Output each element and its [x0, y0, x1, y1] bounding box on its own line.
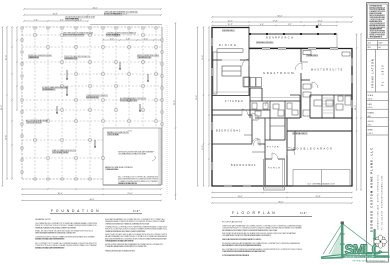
bath cluster center [250, 109, 270, 111]
svg-text:SLAB ON GRADE WITH 6X6 W1.4 WW: SLAB ON GRADE WITH 6X6 W1.4 WWM OVER 6 M… [222, 238, 262, 241]
foundation plan [1, 7, 176, 252]
svg-text:DOGWOOD CUSTOM HOME PLANS, LLC: DOGWOOD CUSTOM HOME PLANS, LLC [370, 147, 374, 232]
svg-text:FL - 1910: FL - 1910 [381, 64, 385, 86]
wic shelving [323, 97, 333, 99]
svg-text:28'-4": 28'-4" [355, 105, 357, 110]
edge piers right [161, 39, 163, 41]
kitchen walls and counters [248, 60, 250, 95]
main rear wall [249, 48, 353, 50]
svg-text:TO VERIFY ALL DIMENSIONS AND: TO VERIFY ALL DIMENSIONS AND [105, 168, 119, 171]
svg-text:GENERAL NOTE: GENERAL NOTE [35, 218, 51, 221]
svg-text:6'-0": 6'-0" [144, 38, 148, 40]
svg-text:FRANK LATSON: FRANK LATSON [371, 59, 375, 88]
master suite walls [300, 49, 302, 63]
foundation top dimension lines [24, 8, 161, 10]
svg-text:5'-8": 5'-8" [126, 38, 130, 40]
svg-text:THE REAL ESTATE PROFESSIONALS: THE REAL ESTATE PROFESSIONALS [352, 260, 386, 263]
garage slab outline [103, 128, 161, 185]
title block small table [367, 40, 389, 42]
svg-text:13'-6": 13'-6" [202, 55, 204, 60]
foundation outer dashed boundary [22, 26, 162, 28]
svg-text:DRAWN: DRAWN [368, 111, 375, 114]
svg-text:F L O O R P L A N: F L O O R P L A N [232, 211, 276, 215]
svg-text:18'-4": 18'-4" [57, 193, 62, 195]
client name vertical [375, 50, 377, 93]
svg-text:16'x7' OVERHEAD GARAGE DOOR: 16'x7' OVERHEAD GARAGE DOOR [307, 183, 335, 186]
logo base band [343, 255, 390, 258]
svg-text:SHEET: SHEET [368, 130, 374, 132]
svg-text:12'-2": 12'-2" [227, 20, 232, 22]
svg-text:ON FIRM UNDISTURBED SOIL TREAT: ON FIRM UNDISTURBED SOIL TREATED SILL PL… [105, 222, 150, 225]
svg-text:SOIL TREATED SILL PLATES ANCHO: SOIL TREATED SILL PLATES ANCHOR BOLTS AT… [105, 239, 135, 242]
foundation misc arrows [66, 70, 68, 80]
hall lower wall [212, 109, 250, 111]
svg-text:R E A R P O R C H: R E A R P O R C H [266, 37, 293, 40]
bedroom2 walls [212, 114, 252, 116]
edge piers left [21, 27, 23, 29]
svg-text:12'-2": 12'-2" [227, 24, 232, 26]
rear porch beam [249, 33, 337, 35]
exterior wall bottom [211, 185, 352, 187]
svg-text:ON COMPACTED FILL CONTRACTOR T: ON COMPACTED FILL CONTRACTOR TO VERIFY A… [222, 234, 272, 237]
svg-text:WRITTEN PERMISSION IS PROHIBIT: WRITTEN PERMISSION IS PROHIBITED [369, 17, 386, 19]
garage doors [293, 170, 350, 187]
floor plan left dimension lines [197, 27, 199, 186]
windows [211, 38, 213, 46]
floor plan top dimension lines [212, 16, 352, 18]
svg-text:M A S T E R S U I T E: M A S T E R S U I T E [311, 69, 343, 72]
svg-text:19'-8": 19'-8" [52, 13, 57, 15]
edge piers top [34, 27, 36, 29]
title block info rows [367, 100, 389, 102]
hall internal dim line [250, 97, 300, 99]
title block [367, 3, 389, 263]
svg-text:WWM OVER 6 MIL VAPOR BARRIER O: WWM OVER 6 MIL VAPOR BARRIER ON COMPACTE… [35, 232, 76, 235]
svg-text:CONDITIONS PRIOR TO CONSTRUCTI: CONDITIONS PRIOR TO CONSTRUCTION [28, 57, 40, 59]
svg-text:SML: SML [368, 116, 372, 118]
svg-text:30'-2": 30'-2" [174, 100, 176, 105]
svg-text:JOB NO: JOB NO [368, 121, 375, 123]
interior piers [34, 34, 36, 36]
svg-text:1/4": 1/4" [300, 211, 307, 215]
svg-text:SILL PLATES ANCHOR BOLTS AT 6-: SILL PLATES ANCHOR BOLTS AT 6-0 OC MAX P… [118, 182, 138, 185]
master bath fixtures [303, 84, 311, 89]
svg-text:15'-4": 15'-4" [317, 20, 322, 22]
SMLC watermark logo [321, 222, 390, 263]
svg-text:SILL PLATES ANCHOR BOLTS AT 6-: SILL PLATES ANCHOR BOLTS AT 6-0 OC MAX P… [35, 238, 65, 241]
utility room [250, 87, 262, 89]
svg-text:D O U B L E G A R A G E: D O U B L E G A R A G E [293, 148, 332, 151]
svg-text:44'-0": 44'-0" [89, 199, 94, 201]
svg-text:1910: 1910 [368, 124, 372, 126]
svg-text:44'-0": 44'-0" [1, 105, 3, 110]
interior door gaps [242, 114, 248, 115]
title block dense notes box [368, 4, 387, 39]
svg-text:G R E A T R O O M: G R E A T R O O M [263, 71, 294, 75]
floor plan right dimension lines [356, 34, 358, 190]
svg-text:30'-2": 30'-2" [196, 95, 198, 100]
edge piers bottom [34, 178, 36, 180]
svg-text:1 OF 2: 1 OF 2 [368, 133, 373, 135]
interior door arcs [242, 59, 249, 66]
logo bridge tower right [374, 229, 376, 258]
svg-text:K I T C H E N: K I T C H E N [225, 101, 243, 103]
foundation bottom dimension lines [22, 188, 161, 190]
svg-text:1/4"=1': 1/4"=1' [368, 99, 374, 101]
svg-text:PSI AT 28 DAYS MIN SLAB ON GRA: PSI AT 28 DAYS MIN SLAB ON GRADE WITH 6X… [105, 250, 135, 253]
floor plan [196, 15, 362, 257]
svg-text:TREATED SILL PLATES ANCHOR BOL: TREATED SILL PLATES ANCHOR BOLTS AT 6-0 … [35, 226, 77, 229]
svg-text:AND CONDITIONS PRIOR TO CONSTR: AND CONDITIONS PRIOR TO CONSTRUCTION FOO… [222, 244, 262, 247]
exterior wall top (dining) [211, 27, 249, 29]
clover emblem [374, 235, 387, 248]
svg-text:66'-0": 66'-0" [278, 201, 283, 203]
svg-text:6-4-19: 6-4-19 [368, 107, 373, 109]
front porch [263, 159, 265, 190]
rear porch slab edge [249, 47, 337, 49]
svg-text:11'-2": 11'-2" [202, 145, 204, 150]
foyer and closet [265, 139, 285, 141]
svg-text:9'-2": 9'-2" [288, 24, 292, 26]
foundation interior beam grid (dashed) [22, 34, 162, 36]
bedroom3 walls [264, 144, 266, 186]
svg-text:B E D R O O M # 2: B E D R O O M # 2 [216, 131, 241, 133]
foundation right dimension lines [166, 25, 168, 195]
svg-text:7'-4": 7'-4" [34, 19, 38, 21]
svg-text:21'-4": 21'-4" [5, 55, 7, 60]
svg-text:24'-4": 24'-4" [122, 13, 127, 15]
dining right wall [248, 28, 250, 61]
svg-text:TO BEAR ON FIRM UNDISTURBED SO: TO BEAR ON FIRM UNDISTURBED SOIL TREATED… [222, 250, 266, 253]
roof post marker [316, 26, 318, 28]
svg-text:SILL PLATES ANCHOR BOLTS AT 6-: SILL PLATES ANCHOR BOLTS AT 6-0 OC MAX P… [222, 229, 278, 232]
logo bridge tower left [341, 224, 344, 258]
foundation left dimension lines [2, 27, 4, 186]
svg-text:13'-0": 13'-0" [237, 196, 242, 198]
svg-text:FOOTINGS TO BEAR ON FIRM UNDIS: FOOTINGS TO BEAR ON FIRM UNDISTURBED SOI… [222, 254, 249, 257]
svg-text:17'-8": 17'-8" [272, 20, 277, 22]
svg-text:21'-0": 21'-0" [128, 131, 133, 133]
logo sail [331, 231, 341, 255]
svg-text:1/4": 1/4" [133, 209, 140, 213]
logo cables right [343, 224, 375, 248]
floor plan bottom dimension lines [212, 192, 352, 194]
svg-text:REPRODUCTION OR REUSE WITHOUT: REPRODUCTION OR REUSE WITHOUT [369, 15, 385, 17]
svg-text:F O Y E R: F O Y E R [267, 147, 279, 149]
svg-text:22'-8": 22'-8" [315, 196, 320, 198]
exterior wall right [351, 49, 353, 187]
svg-text:B E D R O O M # 3: B E D R O O M # 3 [231, 165, 256, 167]
svg-text:PRIOR TO CONSTRUCTION FOOTINGS: PRIOR TO CONSTRUCTION FOOTINGS [120, 100, 138, 102]
svg-text:F O U N D A T I O N: F O U N D A T I O N [51, 209, 100, 213]
svg-text:8'-4": 8'-4" [318, 24, 322, 26]
logo deck [321, 252, 389, 257]
svg-text:SILL PLATES ANCHOR BOLTS AT 6-: SILL PLATES ANCHOR BOLTS AT 6-0 OC MAX P… [35, 246, 65, 249]
exterior wall left [211, 28, 213, 187]
svg-text:D I N I N G: D I N I N G [219, 44, 236, 47]
logo cables left [323, 224, 342, 254]
svg-text:6'-0": 6'-0" [260, 24, 264, 26]
svg-text:21'-0": 21'-0" [127, 193, 132, 195]
svg-text:SAVANNAH MULTI-LIST CORP: SAVANNAH MULTI-LIST CORP [345, 255, 376, 258]
svg-text:12'-8": 12'-8" [5, 135, 7, 140]
svg-text:6'-0": 6'-0" [110, 38, 114, 40]
svg-text:P O R C H: P O R C H [268, 168, 280, 170]
svg-text:SCALE: SCALE [368, 94, 374, 97]
svg-text:6'-2": 6'-2" [60, 19, 64, 21]
svg-text:66'-0": 66'-0" [277, 15, 282, 17]
svg-text:REPRODUCTION OR REUSE WITHOUT: REPRODUCTION OR REUSE WITHOUT [369, 37, 382, 39]
svg-text:FLOOR PLAN NOTES: FLOOR PLAN NOTES [222, 221, 243, 224]
svg-text:TO VERIFY ALL DIMENSIONS AND C: TO VERIFY ALL DIMENSIONS AND CONDITIONS … [105, 245, 147, 248]
foundation right-section top edge [90, 24, 162, 26]
svg-text:TREATED SILL PLATES ANCHOR BOL: TREATED SILL PLATES ANCHOR BOLTS AT 6-0 … [105, 230, 146, 233]
svg-text:ON COMPACTED FILL CONTRACTOR T: ON COMPACTED FILL CONTRACTOR TO VERIFY [118, 153, 147, 156]
svg-text:44'-0": 44'-0" [92, 7, 97, 9]
garage walls [286, 131, 288, 186]
hall walls [212, 95, 250, 97]
